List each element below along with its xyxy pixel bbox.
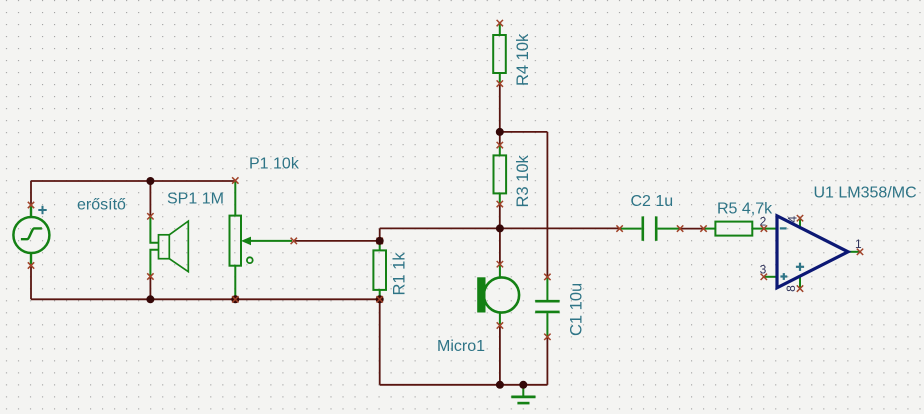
svg-text:R4 10k: R4 10k	[514, 33, 532, 86]
x P1 wiper	[291, 238, 297, 244]
resistor R5	[704, 222, 764, 236]
resistor R3	[494, 145, 507, 204]
svg-text:U1 LM358/MC: U1 LM358/MC	[814, 185, 917, 202]
svg-text:C1 10u: C1 10u	[567, 283, 585, 336]
junction R1 bottom	[376, 295, 384, 303]
wire lower rail net N5	[380, 384, 548, 386]
x R4 top	[497, 20, 503, 26]
potentiometer P1 terminal marker o	[247, 257, 253, 263]
wire R1 bottom drop	[379, 299, 381, 385]
wire C2 to R5 net N6	[680, 228, 703, 230]
x R1 top	[377, 238, 383, 244]
x U1 pin4	[797, 215, 803, 221]
svg-text:Micro1: Micro1	[437, 338, 485, 355]
wire Micro1 top lead	[499, 228, 501, 264]
pin x marks	[28, 20, 863, 340]
op-amp U1 power pin 4 stub	[799, 218, 801, 227]
junction lower rail Micro1	[496, 381, 504, 389]
x R3 bottom	[497, 201, 503, 207]
x R1 bottom over junction	[377, 296, 383, 302]
svg-text:P1 10k: P1 10k	[249, 156, 300, 173]
x SP1 bottom	[147, 273, 153, 279]
x source bottom	[28, 262, 34, 268]
op-amp U1 input pin 2 stub	[764, 228, 776, 230]
x C2 left	[616, 225, 622, 231]
x U1 pin3	[761, 274, 767, 280]
x source top	[28, 202, 34, 208]
wire top rail net N1	[31, 180, 235, 182]
op-amp U1 plus input symbol	[780, 273, 787, 280]
x R4 bottom	[497, 80, 503, 86]
wire Micro1 bottom lead	[499, 326, 501, 385]
op-amp U1 output pin 1 stub	[848, 251, 860, 253]
x C1 top	[544, 274, 550, 280]
wire R3 bottom lead	[499, 204, 501, 228]
op-amp U1 power pin 8 stub	[799, 276, 801, 288]
capacitor C2	[620, 216, 681, 240]
capacitor C1	[535, 277, 559, 337]
op-amp U1 plus power symbol	[796, 263, 804, 271]
source plus sign	[38, 206, 46, 214]
potentiometer P1	[230, 181, 293, 299]
source G1 circle	[13, 205, 49, 266]
svg-text:erősítő: erősítő	[77, 197, 126, 214]
wire bottom rail net N2	[31, 298, 380, 300]
svg-text:C2 1u: C2 1u	[631, 193, 674, 210]
op-amp U1 input pin 3 stub	[764, 276, 776, 278]
junction top rail SP1	[146, 177, 154, 185]
x Micro1 top	[497, 261, 503, 267]
microphone Micro1 body bar	[477, 277, 485, 312]
wire C1 bottom drop	[546, 337, 548, 385]
x SP1 top	[147, 213, 153, 219]
x P1 bottom over junction	[232, 296, 238, 302]
potentiometer P1 wiper arrow head	[241, 237, 251, 246]
wire R4 to junction	[499, 84, 501, 132]
wire main horizontal net N4	[380, 227, 620, 229]
resistor R1	[373, 241, 386, 299]
junction lower rail ground	[519, 381, 527, 389]
x C1 bottom	[544, 334, 550, 340]
junction bottom rail P1	[231, 295, 239, 303]
op-amp U1 minus symbol	[780, 227, 787, 229]
x Micro1 bottom	[497, 322, 503, 328]
op-amp U1 triangle	[777, 216, 848, 288]
x U1 pin8	[797, 285, 803, 291]
wire left vertical lower	[30, 266, 32, 300]
junction bottom rail SP1	[146, 295, 154, 303]
wire R3 top lead	[499, 132, 501, 145]
wire riser R1 to main net	[379, 228, 381, 241]
junction R1 top	[376, 237, 384, 245]
wire SP1 lower lead	[149, 277, 151, 300]
wire C1 branch vertical	[546, 132, 548, 277]
x P1 top	[232, 177, 238, 183]
x R5 left	[700, 225, 706, 231]
resistor R4	[493, 23, 506, 84]
wire SP1 upper lead	[149, 181, 151, 216]
x R5 right	[761, 225, 767, 231]
junction R4 R3 branch	[496, 128, 504, 136]
microphone Micro1	[484, 264, 519, 325]
x C2 right	[677, 225, 683, 231]
wire left vertical upper	[30, 181, 32, 205]
svg-text:SP1 1M: SP1 1M	[167, 191, 224, 208]
junction main net Micro1	[496, 224, 504, 232]
x R3 top	[497, 142, 503, 148]
svg-text:R3 10k: R3 10k	[514, 154, 532, 207]
svg-text:1: 1	[855, 237, 862, 251]
svg-text:8: 8	[784, 285, 798, 292]
wire wiper net N3	[294, 240, 380, 242]
x U1 output	[857, 249, 863, 255]
svg-text:R1 1k: R1 1k	[391, 252, 409, 296]
speaker SP1	[150, 216, 158, 276]
wire junction to C1 branch horizontal	[500, 131, 548, 133]
ground GND	[511, 385, 535, 403]
